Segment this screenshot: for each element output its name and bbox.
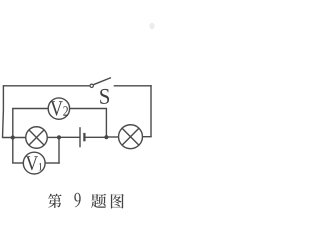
wire voltmeter V1 left lead bbox=[12, 162, 23, 164]
wire voltmeter V2 right lead bbox=[69, 108, 107, 110]
wire node A down to voltmeter V1 level bbox=[12, 138, 14, 164]
wire voltmeter V2 left lead bbox=[12, 108, 48, 110]
voltmeter V2 circle bbox=[48, 98, 69, 119]
caption char 第 bbox=[48, 194, 62, 208]
wire right vertical bbox=[150, 85, 152, 137]
wire lamp L1 to left rail bbox=[2, 137, 26, 139]
switch S pivot bbox=[90, 84, 93, 87]
battery cell short plate bbox=[83, 133, 85, 141]
scan smudge (faint) bbox=[149, 23, 154, 29]
wire voltmeter V2 right vertical bbox=[105, 109, 107, 138]
lamp L1 (left bulb) bbox=[26, 127, 48, 149]
wire battery to node B bbox=[59, 136, 80, 138]
voltmeter V1 circle bbox=[23, 152, 45, 174]
label subscript 1 of voltmeter V1 bbox=[39, 163, 43, 170]
battery cell long plate bbox=[79, 127, 81, 147]
label S (switch) bbox=[100, 89, 109, 104]
wire node B to lamp L1 bbox=[47, 136, 59, 138]
wire node A up to voltmeter V2 level bbox=[12, 109, 14, 138]
wire voltmeter V1 right lead bbox=[45, 162, 60, 164]
label V of voltmeter V1 bbox=[26, 156, 38, 170]
label subscript 2 of voltmeter V2 bbox=[63, 106, 68, 115]
label V of voltmeter V2 bbox=[50, 101, 62, 115]
wire lamp L2 right lead bbox=[142, 136, 151, 138]
wire node C to battery bbox=[85, 136, 106, 138]
switch S lever (open) bbox=[93, 78, 111, 85]
wire top left segment bbox=[3, 85, 90, 87]
node C junction dot bbox=[104, 135, 108, 139]
caption char 题 bbox=[91, 194, 106, 208]
wire top right segment bbox=[114, 85, 152, 87]
caption char 9 bbox=[74, 193, 80, 208]
node A junction dot bbox=[11, 135, 15, 139]
wire lamp L2 to node C bbox=[106, 136, 118, 138]
wire left vertical rail bbox=[2, 85, 5, 138]
lamp L2 (right bulb) bbox=[119, 125, 143, 149]
node B junction dot bbox=[57, 135, 61, 139]
caption char 图 bbox=[111, 194, 124, 209]
wire voltmeter V1 right vertical to node B bbox=[58, 137, 60, 163]
